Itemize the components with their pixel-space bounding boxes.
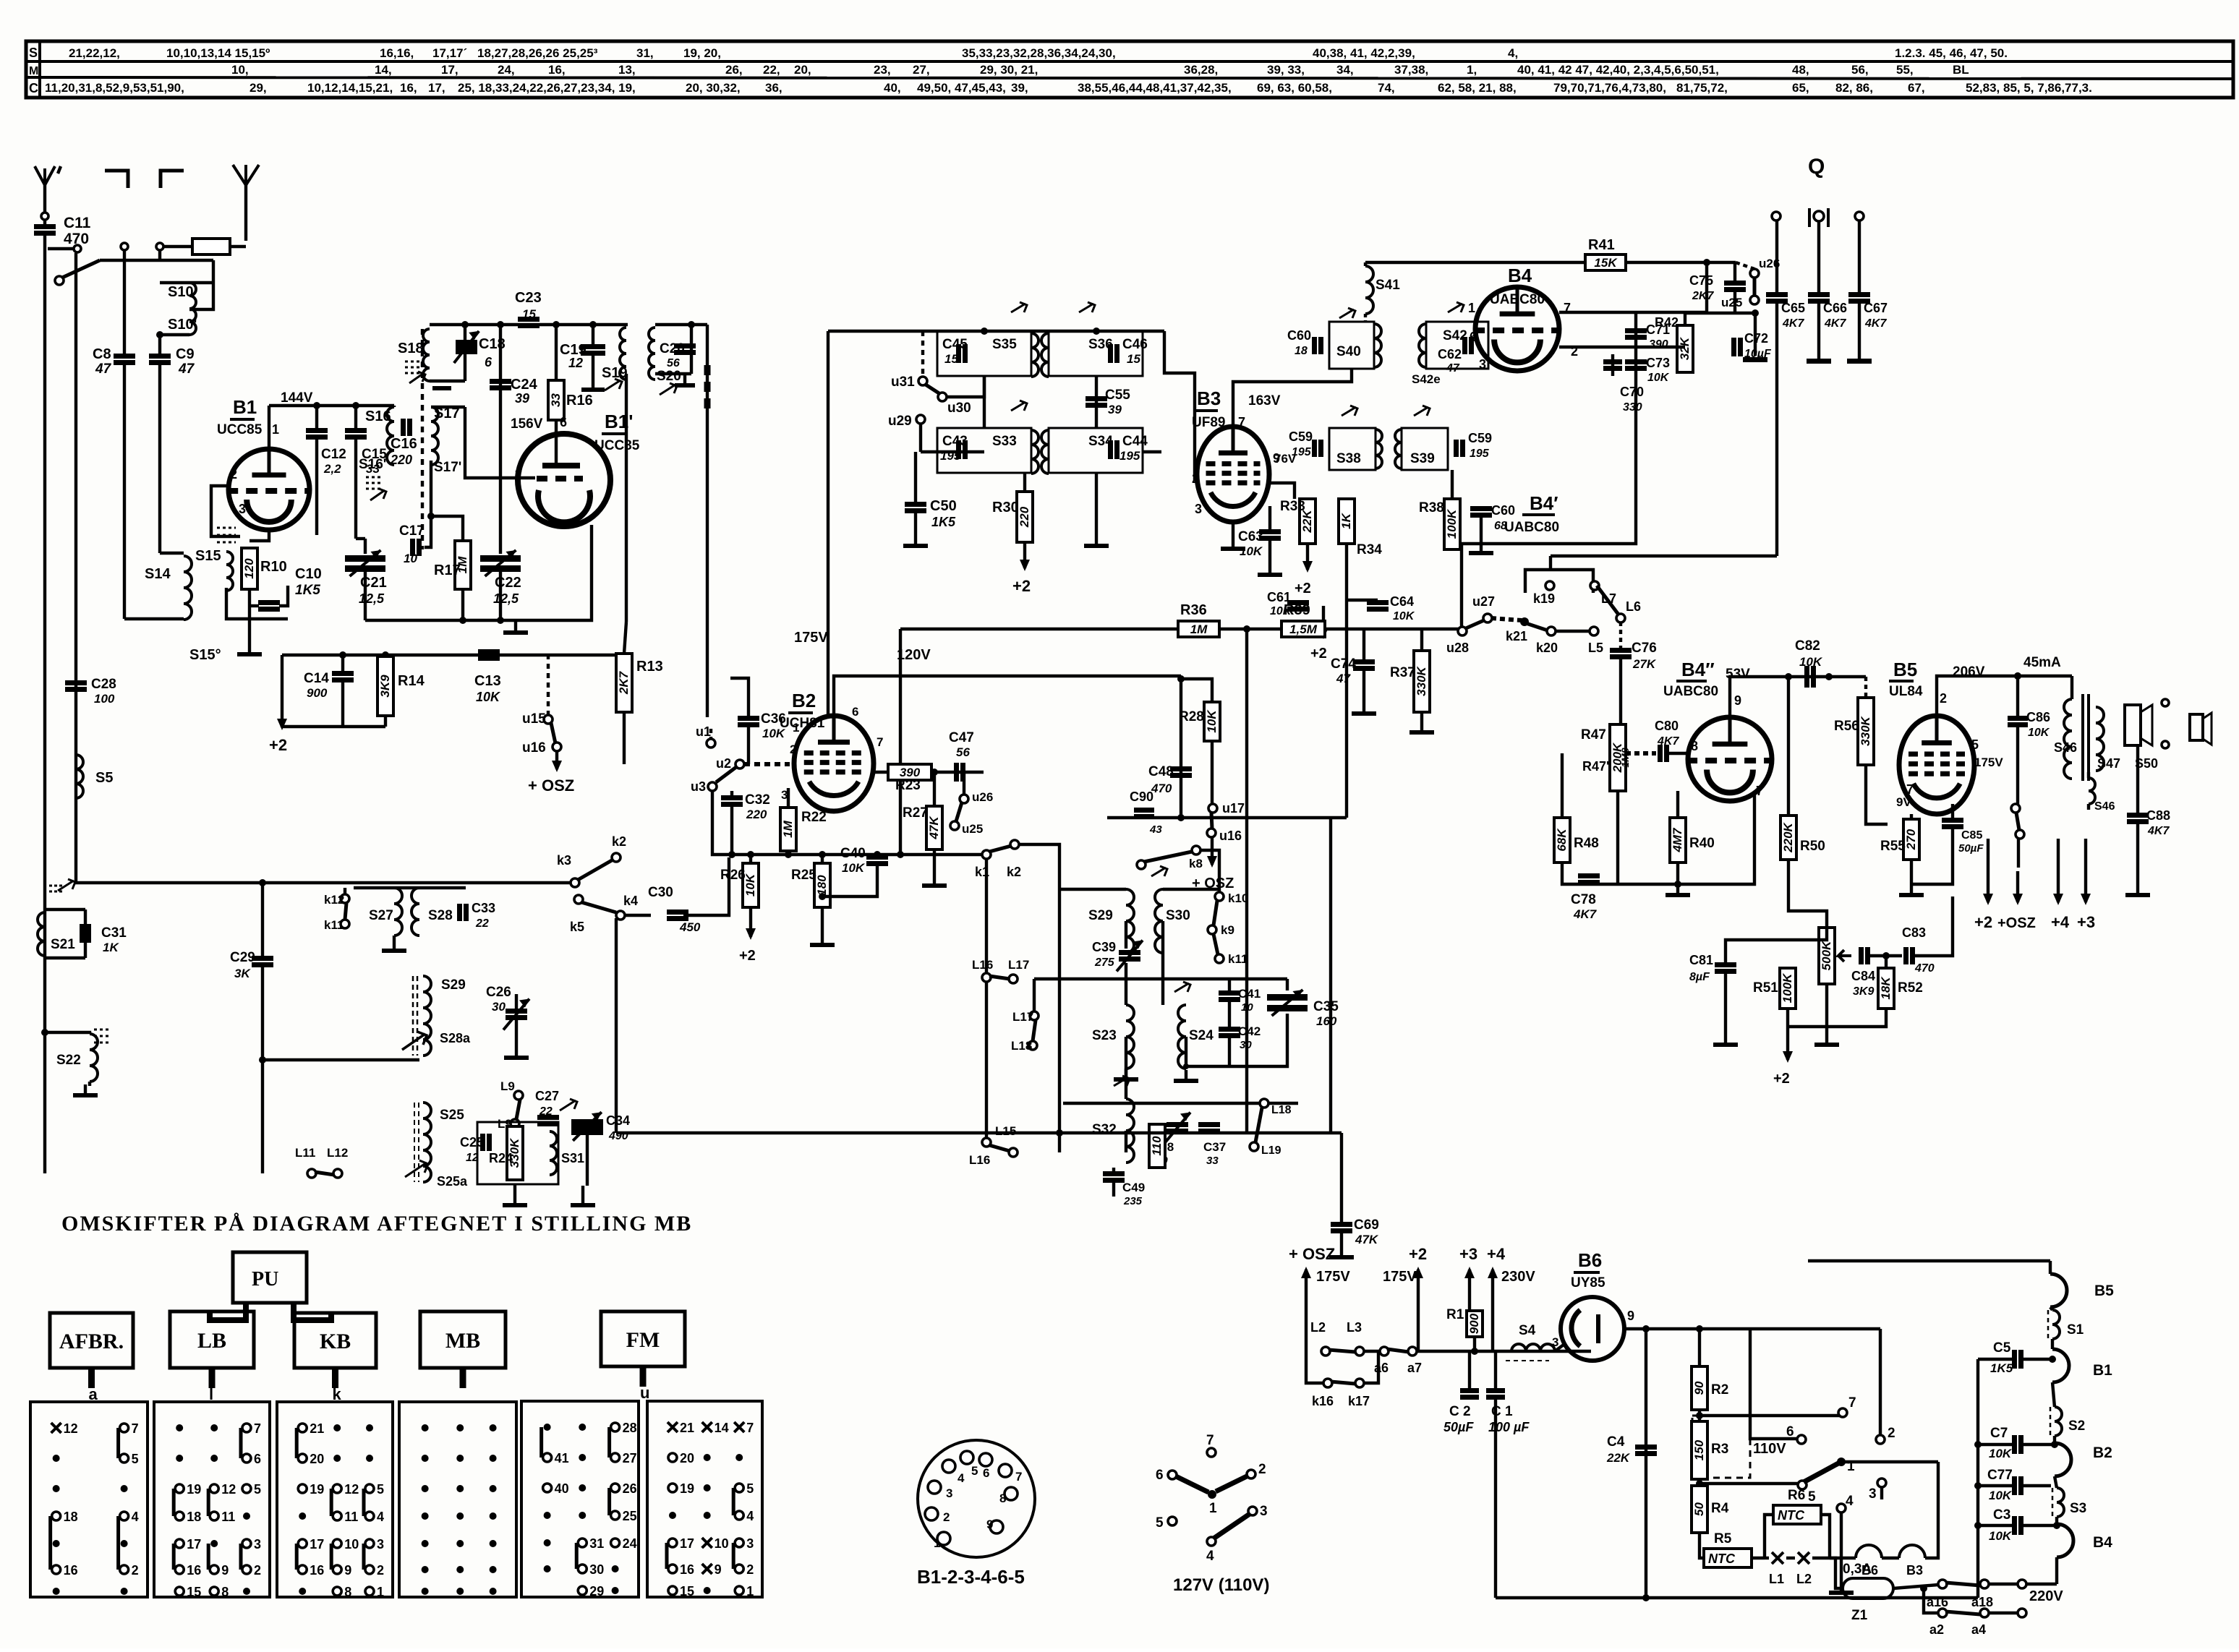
capacitor C12 [315,406,318,428]
svg-text:5: 5 [1156,1515,1164,1531]
capacitor C13 [478,649,500,654]
svg-text:C12: C12 [321,447,346,462]
lamps L1 L2 [1772,1552,1783,1564]
svg-text:220K: 220K [1781,821,1795,852]
svg-text:10K: 10K [842,861,866,875]
svg-text:R34: R34 [1357,542,1382,557]
capacitor C86 [2014,672,2021,680]
block KB stub [332,1368,338,1388]
svg-text:6: 6 [254,1452,261,1466]
svg-text:2: 2 [1258,1462,1266,1477]
svg-text:26: 26 [623,1481,637,1496]
heater B4 [2055,1517,2058,1524]
110V dashed box [1692,1416,1750,1478]
coil S3 [2055,1476,2057,1488]
svg-text:3: 3 [254,1537,261,1552]
resistor R33 [1300,499,1315,544]
switch k19 L7 L6 L5 [1525,570,1593,593]
svg-text:1: 1 [934,1536,940,1550]
svg-text:u16: u16 [522,740,546,756]
svg-text:36,: 36, [765,81,782,95]
capacitor C85 [1942,818,1963,823]
svg-text:L16: L16 [972,958,993,972]
svg-text:S31: S31 [561,1151,584,1165]
svg-text:C37: C37 [1203,1140,1226,1154]
svg-text:220: 220 [1018,506,1031,528]
svg-text:68K: 68K [1555,828,1569,852]
svg-text:330K: 330K [1859,715,1872,745]
wire S19 down [625,374,628,622]
svg-text:+OSZ: +OSZ [1997,915,2036,931]
capacitor C67 [1855,212,1864,221]
tube B5 UL84 [1899,716,1974,814]
svg-text:C25: C25 [460,1135,484,1150]
svg-text:9: 9 [344,1563,351,1578]
svg-text:R42: R42 [1655,315,1679,330]
svg-text:1: 1 [746,1584,754,1598]
svg-text:7: 7 [746,1421,754,1435]
capacitor C14 [341,655,344,671]
svg-text:120V: 120V [897,647,931,663]
resistor R5 NTC [1699,1533,1704,1558]
svg-text:C66: C66 [1823,301,1847,315]
svg-text:C44: C44 [1122,434,1148,449]
header table frame [26,41,2233,98]
svg-text:C55: C55 [1105,388,1130,403]
svg-text:2K7: 2K7 [617,670,631,695]
resistor R1 [1467,1311,1483,1337]
coil S21 [45,908,85,911]
svg-text:S16: S16 [365,408,391,424]
svg-text:KB: KB [320,1330,351,1353]
svg-text:C7: C7 [1990,1426,2008,1441]
wire grid B4pp [1616,791,1619,884]
svg-text:3: 3 [946,1486,952,1500]
svg-text:+ OSZ: + OSZ [528,776,574,795]
capacitor C8 [123,260,126,354]
svg-text:C42: C42 [1238,1024,1261,1038]
svg-text:180: 180 [815,875,829,896]
svg-text:+4: +4 [1487,1245,1506,1263]
switch a2 a4 [1938,1609,1947,1617]
wire u28 riser line A [1460,544,1463,627]
svg-text:55,: 55, [1896,63,1914,77]
svg-text:k4: k4 [623,894,638,908]
svg-text:B4: B4 [2093,1534,2112,1551]
svg-text:19: 19 [187,1482,201,1497]
svg-text:S41: S41 [1376,278,1400,293]
capacitor C41 [1219,990,1240,996]
wire S17p bottom [427,513,435,520]
svg-text:C9: C9 [176,346,195,362]
svg-text:220: 220 [390,453,412,467]
wire B3 cathode [1232,522,1234,538]
PU box [233,1252,307,1303]
svg-text:C46: C46 [1122,337,1148,352]
svg-text:3: 3 [746,1536,754,1551]
capacitor C83 [1903,947,1909,964]
S32 box top [1063,1102,1298,1105]
svg-text:175V: 175V [794,630,828,646]
svg-text:R36: R36 [1180,602,1207,618]
svg-text:195: 195 [1470,448,1490,460]
svg-text:22: 22 [539,1105,553,1118]
svg-text:470: 470 [1914,962,1935,975]
coil S10 S10p [212,260,215,283]
svg-text:175V: 175V [1383,1269,1417,1285]
svg-text:C22: C22 [495,575,521,591]
switch L16 L17 [982,973,991,982]
svg-text:17,: 17, [441,63,459,77]
svg-text:C33: C33 [472,901,495,915]
switch u28 u27 k21 [1458,627,1467,635]
svg-text:1: 1 [1468,301,1475,315]
capacitor C42 [1219,1027,1240,1032]
svg-text:10: 10 [715,1536,729,1551]
capacitor C4 [1635,1445,1657,1450]
svg-text:10K: 10K [1989,1447,2013,1460]
switch u1 u2 u3 [707,739,715,748]
svg-text:R41: R41 [1588,237,1615,253]
block FM [601,1311,685,1366]
wire to B5 grid [1866,765,1888,824]
capacitor C15 [354,406,357,428]
svg-text:+ OSZ: + OSZ [1289,1245,1335,1263]
svg-text:20: 20 [310,1452,324,1466]
svg-text:S42e: S42e [1412,372,1441,386]
coil S2 [2052,1382,2055,1407]
block FM stub [640,1366,647,1387]
svg-text:56,: 56, [1851,63,1869,77]
frame bracket right [161,171,184,188]
svg-text:7: 7 [1015,1470,1022,1484]
svg-text:47: 47 [178,361,195,377]
svg-text:OMSKIFTER PÅ DIAGRAM AFTEGNET: OMSKIFTER PÅ DIAGRAM AFTEGNET I STILLING… [61,1212,692,1236]
svg-text:40,: 40, [884,81,901,95]
svg-text:18: 18 [1295,345,1308,357]
switch S21 cluster [58,879,75,891]
resistor R39 [1281,621,1325,637]
AVC bus [900,628,1459,630]
resistor R50 [1787,677,1790,816]
resistor R27 [926,806,942,849]
bus corner to B3 [1164,331,1199,479]
svg-text:82, 86,: 82, 86, [1835,81,1873,95]
coil S18 [423,329,430,381]
svg-text:UABC80: UABC80 [1490,292,1545,307]
resistor R25b [1149,1124,1165,1168]
svg-text:10: 10 [344,1537,359,1552]
plate rail down [1180,676,1182,818]
node C9 top [156,243,163,250]
matrix AFBR [30,1402,148,1597]
svg-text:S30: S30 [1166,908,1190,923]
svg-text:330K: 330K [1415,665,1428,696]
svg-text:4K7: 4K7 [2147,825,2170,837]
svg-text:R40: R40 [1689,836,1715,851]
wire B1 plate lead [268,406,270,449]
svg-text:50µF: 50µF [1443,1420,1474,1434]
pot R47 [1610,724,1626,791]
resistor R52 [1885,956,1888,968]
svg-text:6: 6 [852,705,858,719]
svg-text:Q: Q [1808,155,1825,179]
junction C29 wire right [259,1056,266,1063]
svg-text:4K7: 4K7 [1782,317,1804,330]
capacitor C16 [401,419,406,436]
svg-text:56: 56 [956,745,970,759]
svg-text:u31: u31 [891,375,915,390]
svg-text:C32: C32 [745,792,770,808]
svg-text:C63: C63 [1238,529,1263,544]
svg-text:16: 16 [187,1563,201,1578]
svg-text:UCC85: UCC85 [217,422,263,437]
bottom bus PSU [1496,1596,1978,1599]
svg-text:L2: L2 [1310,1320,1326,1335]
svg-text:S24: S24 [1189,1028,1214,1043]
svg-text:900: 900 [1467,1313,1481,1334]
svg-text:R17: R17 [434,562,461,578]
node below A1 [41,213,48,220]
svg-text:6: 6 [1786,1424,1794,1439]
svg-text:4,: 4, [1508,46,1518,60]
svg-text:k20: k20 [1536,641,1558,655]
svg-text:10K: 10K [1989,1489,2013,1502]
svg-text:C43: C43 [942,434,968,449]
svg-text:29,: 29, [250,81,267,95]
ground B1p stage [514,622,517,630]
svg-text:R5: R5 [1714,1531,1732,1546]
svg-text:S39: S39 [1410,451,1435,466]
R34 riser [1345,544,1348,818]
tube B2 UCH81 [794,716,874,811]
svg-text:120: 120 [242,558,256,579]
svg-text:39,: 39, [1011,81,1028,95]
switch u26 u25 [1750,269,1759,278]
switch u29 [916,415,925,424]
scale lamps B6 B3 [1830,1557,1856,1559]
svg-text:k3: k3 [557,853,571,868]
capacitor C23 [518,317,540,322]
svg-text:u15: u15 [522,711,546,727]
svg-text:4M7: 4M7 [1671,827,1684,853]
tube B1 UCC85 [229,449,310,530]
bottom bus B1 stage [282,654,618,656]
svg-text:2K7: 2K7 [1692,290,1714,302]
capacitor C80 [1658,745,1663,762]
svg-text:R39: R39 [1284,602,1310,618]
svg-text:8: 8 [1691,739,1698,753]
svg-text:C13: C13 [474,673,501,689]
capacitor C82 [1804,666,1809,688]
matrix FM left [521,1401,639,1597]
svg-text:S17': S17' [434,460,461,475]
svg-text:2: 2 [943,1510,950,1524]
svg-text:235: 235 [1123,1195,1143,1207]
svg-text:L18: L18 [1011,1039,1032,1053]
svg-text:1: 1 [793,721,799,735]
svg-text:R47: R47 [1581,727,1606,742]
svg-text:L1: L1 [1769,1572,1784,1586]
coil S31 [550,1131,557,1175]
svg-text:S34: S34 [1088,434,1113,449]
coil S20 + C20 [655,323,707,326]
svg-text:9: 9 [1627,1309,1634,1323]
wire k2 right [1019,844,1059,889]
trimmer C21 [364,539,367,554]
svg-text:S33: S33 [992,434,1017,449]
resistor R38 [1451,470,1454,499]
svg-text:L17: L17 [1008,958,1029,972]
svg-text:3: 3 [1195,502,1202,516]
svg-text:1K: 1K [1339,512,1353,528]
svg-text:R2: R2 [1711,1382,1728,1398]
svg-text:23,: 23, [874,63,891,77]
svg-text:B3: B3 [1197,388,1221,409]
speaker [2125,705,2141,745]
svg-text:45mA: 45mA [2023,655,2061,670]
wire R2 tap to 7 [1699,1414,1840,1417]
svg-text:27K: 27K [1632,657,1657,671]
svg-text:2: 2 [230,467,237,482]
capacitor C64 [1367,600,1389,605]
svg-text:S46: S46 [2054,740,2077,755]
volume pot R46 [1819,928,1835,984]
capacitor C27 [537,1115,559,1120]
node [74,245,81,252]
svg-text:10K: 10K [1647,372,1670,384]
capacitor C74 [1362,629,1365,659]
svg-text:S14: S14 [145,566,171,582]
svg-text:47: 47 [95,361,112,377]
variable cap C35 [1286,979,1289,990]
svg-text:R13: R13 [636,659,663,675]
svg-text:50: 50 [1692,1502,1706,1516]
svg-text:390: 390 [1649,338,1668,351]
switch u15 u16 [544,715,553,724]
coil S32 [1126,1099,1134,1163]
svg-text:u27: u27 [1472,594,1495,609]
svg-text:26,: 26, [725,63,743,77]
wire top to 6 [1750,1329,1798,1439]
svg-text:C: C [29,81,38,95]
svg-text:5: 5 [1971,737,1979,752]
svg-text:C41: C41 [1238,987,1261,1001]
osc box R24 S31 [477,1122,558,1184]
svg-text:S15°: S15° [189,647,221,663]
svg-text:C67: C67 [1864,301,1888,315]
capacitor C25 [480,1134,485,1151]
top bus B1p [430,323,628,326]
svg-text:L19: L19 [1261,1144,1281,1157]
svg-text:2: 2 [132,1563,139,1578]
wire S36 to B3 grid [1143,450,1161,453]
antenna A2 [233,165,246,185]
svg-text:17: 17 [680,1536,694,1551]
coil S4 [1511,1344,1555,1351]
svg-text:17: 17 [310,1537,324,1552]
svg-text:C28: C28 [91,677,116,692]
svg-text:R14: R14 [398,673,425,689]
svg-text:k12: k12 [324,893,344,907]
svg-text:1M: 1M [781,820,795,837]
svg-text:40,38, 41, 42,2,39,: 40,38, 41, 42,2,39, [1313,46,1415,60]
svg-text:35,33,23,32,28,36,34,24,30,: 35,33,23,32,28,36,34,24,30, [962,46,1116,60]
svg-text:13,: 13, [618,63,636,77]
svg-text:S22: S22 [56,1053,81,1068]
supply arrows [1987,860,1989,902]
svg-text:C60: C60 [1287,328,1311,343]
svg-text:R22: R22 [801,810,827,825]
svg-text:C76: C76 [1632,641,1657,656]
capacitor C11 [43,220,46,226]
svg-text:69, 63, 60,58,: 69, 63, 60,58, [1257,81,1332,95]
svg-text:230V: 230V [1501,1269,1535,1285]
capacitor C36 [738,716,759,721]
svg-text:S36: S36 [1088,337,1113,352]
svg-text:47: 47 [1446,362,1460,375]
svg-text:+2: +2 [1974,913,1992,931]
svg-text:UF89: UF89 [1192,415,1225,430]
svg-text:u3: u3 [691,779,706,794]
svg-text:270: 270 [1904,829,1918,850]
svg-text:u30: u30 [947,401,971,416]
resistor R23 [888,764,931,780]
selector blade B6 [1804,1463,1838,1482]
svg-text:R37: R37 [1390,665,1415,680]
svg-text:C88: C88 [2146,808,2170,823]
svg-text:4: 4 [746,1509,754,1523]
svg-text:3K: 3K [234,967,251,980]
capacitor C37 [1198,1122,1220,1127]
ground R46 [1825,984,1828,1034]
svg-text:S29: S29 [1088,908,1113,923]
svg-text:12: 12 [64,1421,78,1436]
svg-text:1: 1 [1209,1501,1217,1516]
svg-text:1.2.3. 45, 46, 47, 50.: 1.2.3. 45, 46, 47, 50. [1895,46,2008,60]
svg-text:C8: C8 [93,346,111,362]
coil S15 [226,552,233,591]
capacitor C88 [2136,745,2139,813]
resistor R6 NTC [1773,1505,1821,1524]
svg-text:41: 41 [555,1451,569,1465]
svg-text:R6: R6 [1788,1488,1805,1503]
svg-text:C48: C48 [1148,764,1174,779]
svg-text:S3: S3 [2070,1501,2086,1516]
svg-text:R4: R4 [1711,1501,1729,1516]
svg-text:AFBR.: AFBR. [59,1330,124,1353]
svg-text:S25a: S25a [437,1174,468,1189]
svg-text:S38: S38 [1336,451,1361,466]
svg-text:49,50, 47,45,43,: 49,50, 47,45,43, [917,81,1006,95]
capacitor C90 [1134,808,1154,813]
svg-text:4K7: 4K7 [1573,907,1598,921]
resistor R55 [1910,814,1913,819]
svg-text:C85: C85 [1961,829,1982,842]
svg-text:175V: 175V [1316,1269,1350,1285]
resistor R26 [743,863,759,907]
svg-text:160: 160 [1316,1014,1337,1028]
svg-text:B1-2-3-4-6-5: B1-2-3-4-6-5 [917,1566,1025,1588]
wire B1p cathode [557,525,592,620]
svg-text:17,: 17, [428,81,445,95]
svg-text:S25: S25 [440,1108,464,1123]
svg-text:175V: 175V [1974,756,2003,769]
svg-text:S4: S4 [1519,1323,1536,1338]
svg-text:u25: u25 [1721,296,1742,309]
resistor R41 [1585,254,1626,270]
circle 4 [1837,1504,1846,1512]
